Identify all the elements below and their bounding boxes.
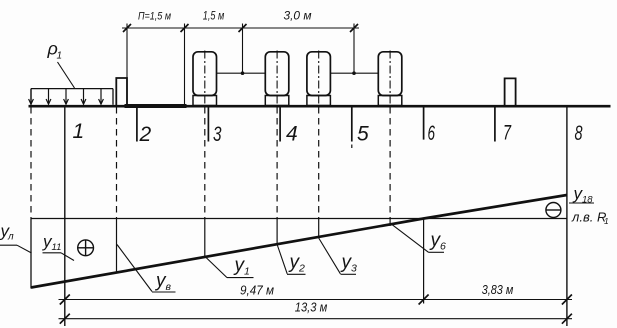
underline y_2 <box>287 273 306 275</box>
svg-text:в: в <box>166 281 172 293</box>
axle line bogie 2 <box>330 72 378 74</box>
dim tick at 354 <box>350 24 358 32</box>
top dimension line <box>122 27 359 29</box>
svg-text:1: 1 <box>73 120 85 143</box>
underline y_л <box>0 244 17 246</box>
svg-text:6: 6 <box>440 241 446 253</box>
dashed projection at wheel W2 <box>276 107 278 219</box>
svg-text:13,3 м: 13,3 м <box>295 301 328 315</box>
extension line at crossing x=423.6 down to dimension <box>423 220 425 304</box>
axle line bogie 1 <box>217 72 266 74</box>
extension line at 242.5 to axle 1 <box>242 24 244 74</box>
svg-text:8: 8 <box>575 122 583 145</box>
position tick 7 <box>494 107 496 142</box>
svg-text:3: 3 <box>213 123 222 146</box>
underline y_6 <box>429 251 445 253</box>
position tick 5 <box>351 107 353 142</box>
underline y_18 <box>569 202 594 204</box>
underline y_3 <box>341 273 357 275</box>
extension line at 127 (П left) <box>126 24 128 106</box>
underline y_в <box>152 291 176 293</box>
wheel W2 tire <box>265 52 289 96</box>
beam (main girder line) <box>29 105 611 108</box>
wheel W4 tire <box>378 52 402 96</box>
position tick 2 <box>136 107 138 142</box>
dim B tick at 64.8 <box>60 314 70 324</box>
distributed load right edge <box>112 89 114 105</box>
svg-text:11: 11 <box>52 242 62 253</box>
leader y_л <box>17 245 32 253</box>
distributed load arrow 1 <box>29 89 34 105</box>
leader y_2 <box>277 245 287 274</box>
position tick 3 <box>207 107 209 142</box>
left column bar (П block edge) <box>116 78 127 106</box>
wheel W4 axis dash-dot <box>389 51 391 106</box>
dim A tick at 64.8 <box>60 295 70 305</box>
svg-text:2: 2 <box>298 263 305 275</box>
svg-text:1: 1 <box>244 266 250 278</box>
position tick 6 <box>423 107 425 140</box>
thick loaded segment under П block <box>125 104 187 108</box>
distributed load arrow 5 <box>99 89 104 105</box>
node on axle 1 <box>241 71 245 75</box>
dim A tick at 566.9 <box>562 295 572 305</box>
ordinate segment at wheel W3 (y_3) <box>318 219 320 238</box>
svg-text:П=1,5 м: П=1,5 м <box>138 11 171 23</box>
wheel W2 axis dash-dot <box>276 51 278 106</box>
position tick 8 (support, full extension line) <box>566 107 568 326</box>
leader y_11 <box>61 253 74 261</box>
leader y_1 <box>205 257 227 278</box>
ordinate segment at wheel W2 (y_2) <box>276 219 278 245</box>
influence line baseline (zero axis) <box>31 218 567 220</box>
column bar at position 7 <box>505 78 516 105</box>
wheel W3 axis dash-dot <box>318 51 320 106</box>
svg-text:1,5 м: 1,5 м <box>203 11 225 23</box>
wheel W3 tire <box>307 52 331 96</box>
svg-text:2: 2 <box>139 123 152 146</box>
dim B tick at 566.9 <box>562 314 572 324</box>
distributed load arrow 2 <box>46 89 51 105</box>
wheel W3 contact patch <box>307 96 331 106</box>
svg-text:л: л <box>7 232 14 243</box>
extension line at 184.5 (П right) <box>184 24 186 106</box>
node on axle 2 <box>352 71 356 75</box>
leader for q1 <box>58 62 75 88</box>
underline y_1 <box>227 277 254 279</box>
dim tick at 242.5 <box>239 24 247 32</box>
svg-text:3,0 м: 3,0 м <box>284 11 312 23</box>
wheel W4 contact patch <box>378 96 402 106</box>
distributed load left edge <box>30 89 32 105</box>
distributed load arrow 3 <box>64 89 69 105</box>
dashed projection at wheel W4 <box>389 107 391 219</box>
leader y_3 <box>319 238 341 274</box>
wheel W1 contact patch <box>193 96 217 106</box>
ordinate segment at wheel W4 (y_6) <box>389 219 391 226</box>
influence line of R1 <box>31 195 567 288</box>
svg-text:3: 3 <box>351 263 357 275</box>
dashed projection at x=116.5 (П left edge) <box>116 107 118 219</box>
distributed load arrow 4 <box>81 89 86 105</box>
dim tick at 127 <box>123 24 131 32</box>
wheel W2 contact patch <box>265 96 289 106</box>
wheel W1 axis dash-dot <box>204 51 206 106</box>
svg-text:л.в. R: л.в. R <box>571 210 606 225</box>
bottom dimension line A <box>59 299 573 301</box>
dashed projection at wheel W3 <box>318 107 320 219</box>
svg-text:4: 4 <box>286 123 298 146</box>
dashed projection at wheel W1 <box>204 107 206 219</box>
underline y_11 <box>43 252 62 254</box>
extension line at 354 to axle 2 <box>353 24 355 74</box>
svg-text:3,83 м: 3,83 м <box>482 283 514 297</box>
ordinate segment at x=116.5 (y_в) <box>116 219 118 273</box>
svg-text:1: 1 <box>604 216 609 226</box>
dashed projection at beam left end <box>30 107 32 219</box>
svg-text:6: 6 <box>428 122 436 145</box>
minus sign circle <box>546 203 561 218</box>
leader y_6 <box>391 224 429 253</box>
dim A tick at 423.6 <box>419 295 429 305</box>
svg-text:18: 18 <box>582 195 593 206</box>
ordinate segment at left end (y_л) <box>30 219 32 289</box>
dim tick at 184.5 <box>181 24 189 32</box>
wheel W1 tire <box>193 52 217 96</box>
ordinate segment at wheel W1 (y_1) <box>204 219 206 258</box>
svg-text:7: 7 <box>503 122 512 145</box>
plus sign circle <box>78 240 94 256</box>
distributed load q1 top line <box>31 88 113 90</box>
svg-text:5: 5 <box>357 123 369 146</box>
svg-text:1: 1 <box>57 51 63 62</box>
small dash below tick 5 <box>351 145 353 149</box>
position tick 1 (support, full extension line) <box>64 107 66 326</box>
leader y_в <box>117 245 152 292</box>
svg-text:9,47 м: 9,47 м <box>240 284 274 298</box>
position tick 4 <box>279 107 281 142</box>
bottom dimension line B <box>59 318 573 320</box>
